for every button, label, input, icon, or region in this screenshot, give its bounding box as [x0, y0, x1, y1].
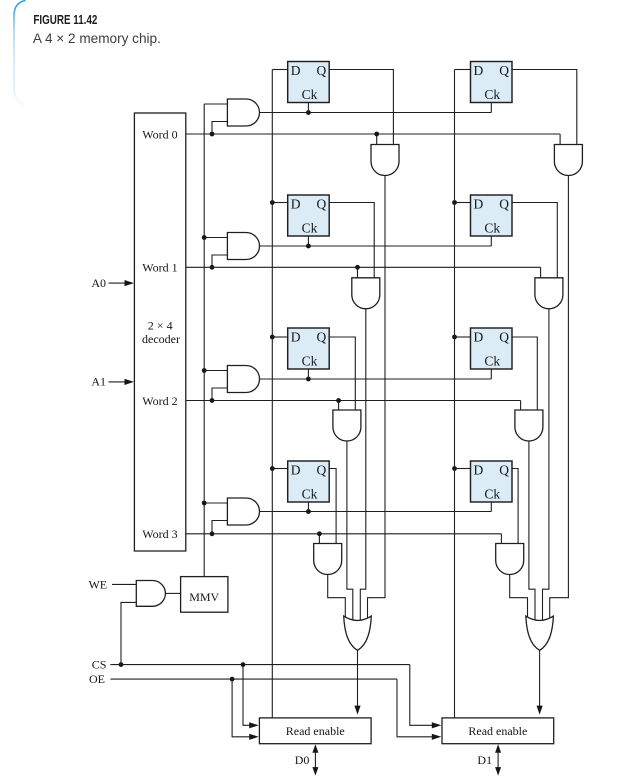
svg-text:OE: OE [89, 672, 105, 686]
wire: word 1 drop to read gate bit1 [540, 267, 542, 278]
D flip-flop FF1 (word 0, bit 1) [471, 62, 513, 103]
wire: word 1 drop to read gate bit0 [357, 267, 359, 278]
junction on word line 0 [210, 132, 215, 137]
svg-text:Q: Q [499, 330, 509, 345]
svg-text:Q: Q [499, 63, 509, 78]
D flip-flop FF0 (word 0, bit 0) [288, 62, 330, 103]
wire: word line 2 [186, 400, 521, 402]
wire: word 2 branch to G3 lower input [212, 388, 227, 401]
wire: FF2 Q to read gate [329, 203, 374, 278]
svg-text:MMV: MMV [189, 590, 219, 604]
svg-text:FIGURE 11.42: FIGURE 11.42 [33, 12, 97, 27]
junction CS / G5 [119, 662, 124, 667]
and gate RG2 (read row 1 bit 0) [352, 278, 380, 309]
wire: FF6 Ck stub [307, 502, 309, 512]
wire: RG5 output to OR gate [529, 441, 535, 621]
wire: word line 0 [186, 133, 560, 135]
svg-text:D: D [291, 330, 301, 345]
wire: word 0 drop to read gate bit1 [559, 134, 561, 145]
wire: FF6 D input stub [272, 468, 287, 470]
and gate RG7 (read row 3 bit 1) [496, 544, 524, 575]
D flip-flop FF7 (word 3, bit 1) [471, 461, 513, 502]
wire: FF0 Ck stub [307, 103, 309, 113]
junction word 3 / bit0 read branch [317, 531, 322, 536]
svg-text:Ck: Ck [484, 353, 500, 368]
wire: CS to read enable 0 [243, 665, 250, 726]
D flip-flop FF2 (word 1, bit 0) [288, 195, 330, 236]
junction write row 0 / Ck bit0 [306, 110, 311, 115]
svg-text:D: D [474, 197, 484, 212]
D flip-flop FF3 (word 1, bit 1) [471, 195, 513, 236]
wire: word 2 drop to read gate bit0 [338, 401, 340, 411]
wire: write row 2 line (G3 out to Ck pins) [260, 378, 492, 380]
svg-text:A0: A0 [91, 276, 106, 290]
svg-text:decoder: decoder [142, 332, 180, 346]
wire: FF1 Ck stub [490, 103, 492, 113]
wire: FF4 D input stub [272, 336, 287, 338]
svg-text:Ck: Ck [302, 353, 318, 368]
wire: write row 1 line (G2 out to Ck pins) [260, 245, 492, 247]
wire: word 0 drop to read gate bit0 [376, 134, 378, 145]
junction on word line 2 [210, 398, 215, 403]
and gate G3 (write select row 2) [227, 366, 259, 393]
junction data column bit0 / FF2 D [270, 200, 275, 205]
wire: data column bit 1 [454, 70, 456, 718]
svg-text:Word 1: Word 1 [142, 261, 177, 275]
junction write row 3 / Ck bit0 [306, 509, 311, 514]
svg-text:Ck: Ck [484, 486, 500, 501]
and gate RG4 (read row 2 bit 0) [333, 410, 361, 441]
wire: FF0 D input stub [272, 69, 287, 71]
wire: FF3 D input stub [455, 202, 471, 204]
wire: FF2 D input stub [272, 202, 287, 204]
svg-text:D: D [291, 63, 301, 78]
D flip-flop FF6 (word 3, bit 0) [288, 461, 330, 502]
svg-text:D1: D1 [477, 753, 492, 767]
junction word 2 / bit0 read branch [336, 398, 341, 403]
wire: RG3 output to OR gate [543, 309, 549, 621]
svg-text:Q: Q [499, 463, 509, 478]
svg-text:WE: WE [88, 577, 107, 591]
wire: RG2 output to OR gate [360, 309, 366, 621]
node D0 bidirectional port [295, 744, 319, 775]
wire: word line 1 [186, 266, 541, 268]
wire: word 0 branch to G1 lower input [212, 122, 227, 135]
wire: RG6 output to OR gate [328, 575, 346, 621]
wire: FF7 Ck stub [490, 502, 492, 512]
and gate RG3 (read row 1 bit 1) [535, 278, 563, 309]
svg-text:Ck: Ck [302, 220, 318, 235]
and gate RG1 (read row 0 bit 1) [554, 145, 582, 176]
and gate RG5 (read row 2 bit 1) [515, 410, 543, 441]
wire: MMV feed to G3 top input [204, 370, 227, 372]
svg-text:Q: Q [316, 463, 326, 478]
wire: G5 lower input from CS [121, 602, 136, 664]
svg-text:D: D [474, 463, 484, 478]
wire: RG1 output to OR gate [550, 176, 569, 621]
wire: RG7 output to OR gate [510, 575, 528, 621]
junction CS branch [241, 662, 246, 667]
wire: FF3 Ck stub [490, 236, 492, 246]
read enable buffer RE1 [442, 718, 554, 744]
wire: write row 0 line (G1 out to Ck pins) [260, 112, 492, 114]
wire: FF7 Q to read gate [512, 469, 518, 544]
svg-text:Read enable: Read enable [468, 724, 527, 738]
svg-text:Ck: Ck [484, 220, 500, 235]
wire: MMV feed to G1 top input [204, 103, 227, 105]
wire: data column bit 0 [271, 70, 273, 718]
wire: OR0 output to read enable [357, 650, 359, 706]
wire: word 2 drop to read gate bit1 [520, 401, 522, 411]
svg-text:Q: Q [316, 330, 326, 345]
junction word 0 / bit0 read branch [374, 132, 379, 137]
svg-text:Ck: Ck [302, 486, 318, 501]
junction MMV feed / G2 [202, 235, 207, 240]
wire: FF5 Ck stub [490, 369, 492, 379]
wire: write row 3 line (G4 out to Ck pins) [260, 511, 492, 513]
svg-text:Q: Q [499, 197, 509, 212]
decorative corner rule [14, 1, 26, 106]
svg-text:D: D [291, 197, 301, 212]
wire: OE line [110, 678, 397, 680]
svg-text:D: D [474, 330, 484, 345]
wire: OR1 output to read enable [539, 650, 541, 706]
and gate G2 (write select row 1) [227, 233, 259, 260]
wire: CS line [110, 664, 409, 666]
wire: FF6 Q to read gate [329, 469, 336, 544]
monostable MMV [181, 577, 228, 613]
junction data column bit0 / FF4 D [270, 335, 275, 340]
junction write row 2 / Ck bit0 [306, 377, 311, 382]
junction data column bit1 / FF7 D [452, 466, 457, 471]
wire: FF1 D input stub [455, 69, 471, 71]
junction data column bit0 / FF6 D [270, 466, 275, 471]
wire: FF2 Ck stub [307, 236, 309, 246]
D flip-flop FF5 (word 2, bit 1) [471, 328, 513, 369]
wire: FF0 Q to read gate [329, 70, 393, 145]
svg-text:Q: Q [316, 197, 326, 212]
junction on word line 1 [210, 265, 215, 270]
junction data column bit1 / FF5 D [452, 335, 457, 340]
svg-text:A 4 × 2 memory chip.: A 4 × 2 memory chip. [33, 30, 161, 46]
wire: word 1 branch to G2 lower input [212, 255, 227, 267]
svg-text:2 × 4: 2 × 4 [148, 318, 173, 332]
and gate G1 (write select row 0) [227, 99, 259, 126]
wire: FF3 Q to read gate [512, 203, 557, 278]
svg-text:A1: A1 [91, 375, 106, 389]
wire: FF5 Q to read gate [512, 337, 537, 410]
junction on word line 3 [210, 531, 215, 536]
and gate G4 (write select row 3) [227, 498, 259, 525]
svg-text:D: D [474, 63, 484, 78]
wire: FF5 D input stub [455, 336, 471, 338]
svg-text:Word 0: Word 0 [142, 127, 177, 141]
junction data column bit1 / FF3 D [452, 200, 457, 205]
wire: OE to read enable 0 [232, 679, 250, 737]
and gate G5 (WE gate) [136, 581, 165, 607]
or gate OR1 (bit 1) [526, 616, 554, 650]
wire: FF4 Ck stub [307, 369, 309, 379]
and gate RG6 (read row 3 bit 0) [314, 544, 342, 575]
D flip-flop FF4 (word 2, bit 0) [288, 328, 330, 369]
junction MMV feed / G3 [202, 368, 207, 373]
svg-text:Ck: Ck [484, 87, 500, 102]
wire: word 3 branch to G4 lower input [212, 521, 227, 534]
svg-text:Ck: Ck [302, 87, 318, 102]
node D1 bidirectional port [477, 744, 501, 775]
2x4 decoder U1 [134, 113, 185, 551]
svg-text:Word 2: Word 2 [142, 394, 177, 408]
junction word 1 / bit0 read branch [355, 265, 360, 270]
wire: MMV feed to G4 top input [204, 502, 227, 504]
wire: word line 3 [186, 533, 502, 535]
wire: FF7 D input stub [455, 468, 471, 470]
junction write row 1 / Ck bit0 [306, 244, 311, 249]
junction MMV feed / G4 [202, 501, 207, 506]
svg-text:D0: D0 [295, 753, 310, 767]
svg-text:Read enable: Read enable [286, 724, 345, 738]
wire: FF1 Q to read gate [512, 70, 577, 145]
svg-text:Word 3: Word 3 [142, 527, 177, 541]
read enable buffer RE0 [259, 718, 371, 744]
wire: FF4 Q to read gate [329, 337, 355, 410]
or gate OR0 (bit 0) [344, 616, 372, 650]
svg-text:Q: Q [316, 63, 326, 78]
wire: MMV feed to G2 top input [204, 237, 227, 239]
wire: word 3 drop to read gate bit0 [318, 534, 320, 544]
svg-text:D: D [291, 463, 301, 478]
wire: word 3 drop to read gate bit1 [500, 534, 502, 544]
wire: RG0 output to OR gate [368, 176, 386, 621]
wire: OE to read enable 1 [397, 679, 433, 737]
junction OE branch [230, 677, 235, 682]
svg-text:CS: CS [92, 657, 107, 671]
wire: MMV output feed line [203, 104, 205, 577]
wire: CS to read enable 1 [410, 665, 433, 726]
wire: G5 output to MMV [165, 592, 180, 594]
wire: RG4 output to OR gate [347, 441, 353, 621]
and gate RG0 (read row 0 bit 0) [371, 145, 399, 176]
